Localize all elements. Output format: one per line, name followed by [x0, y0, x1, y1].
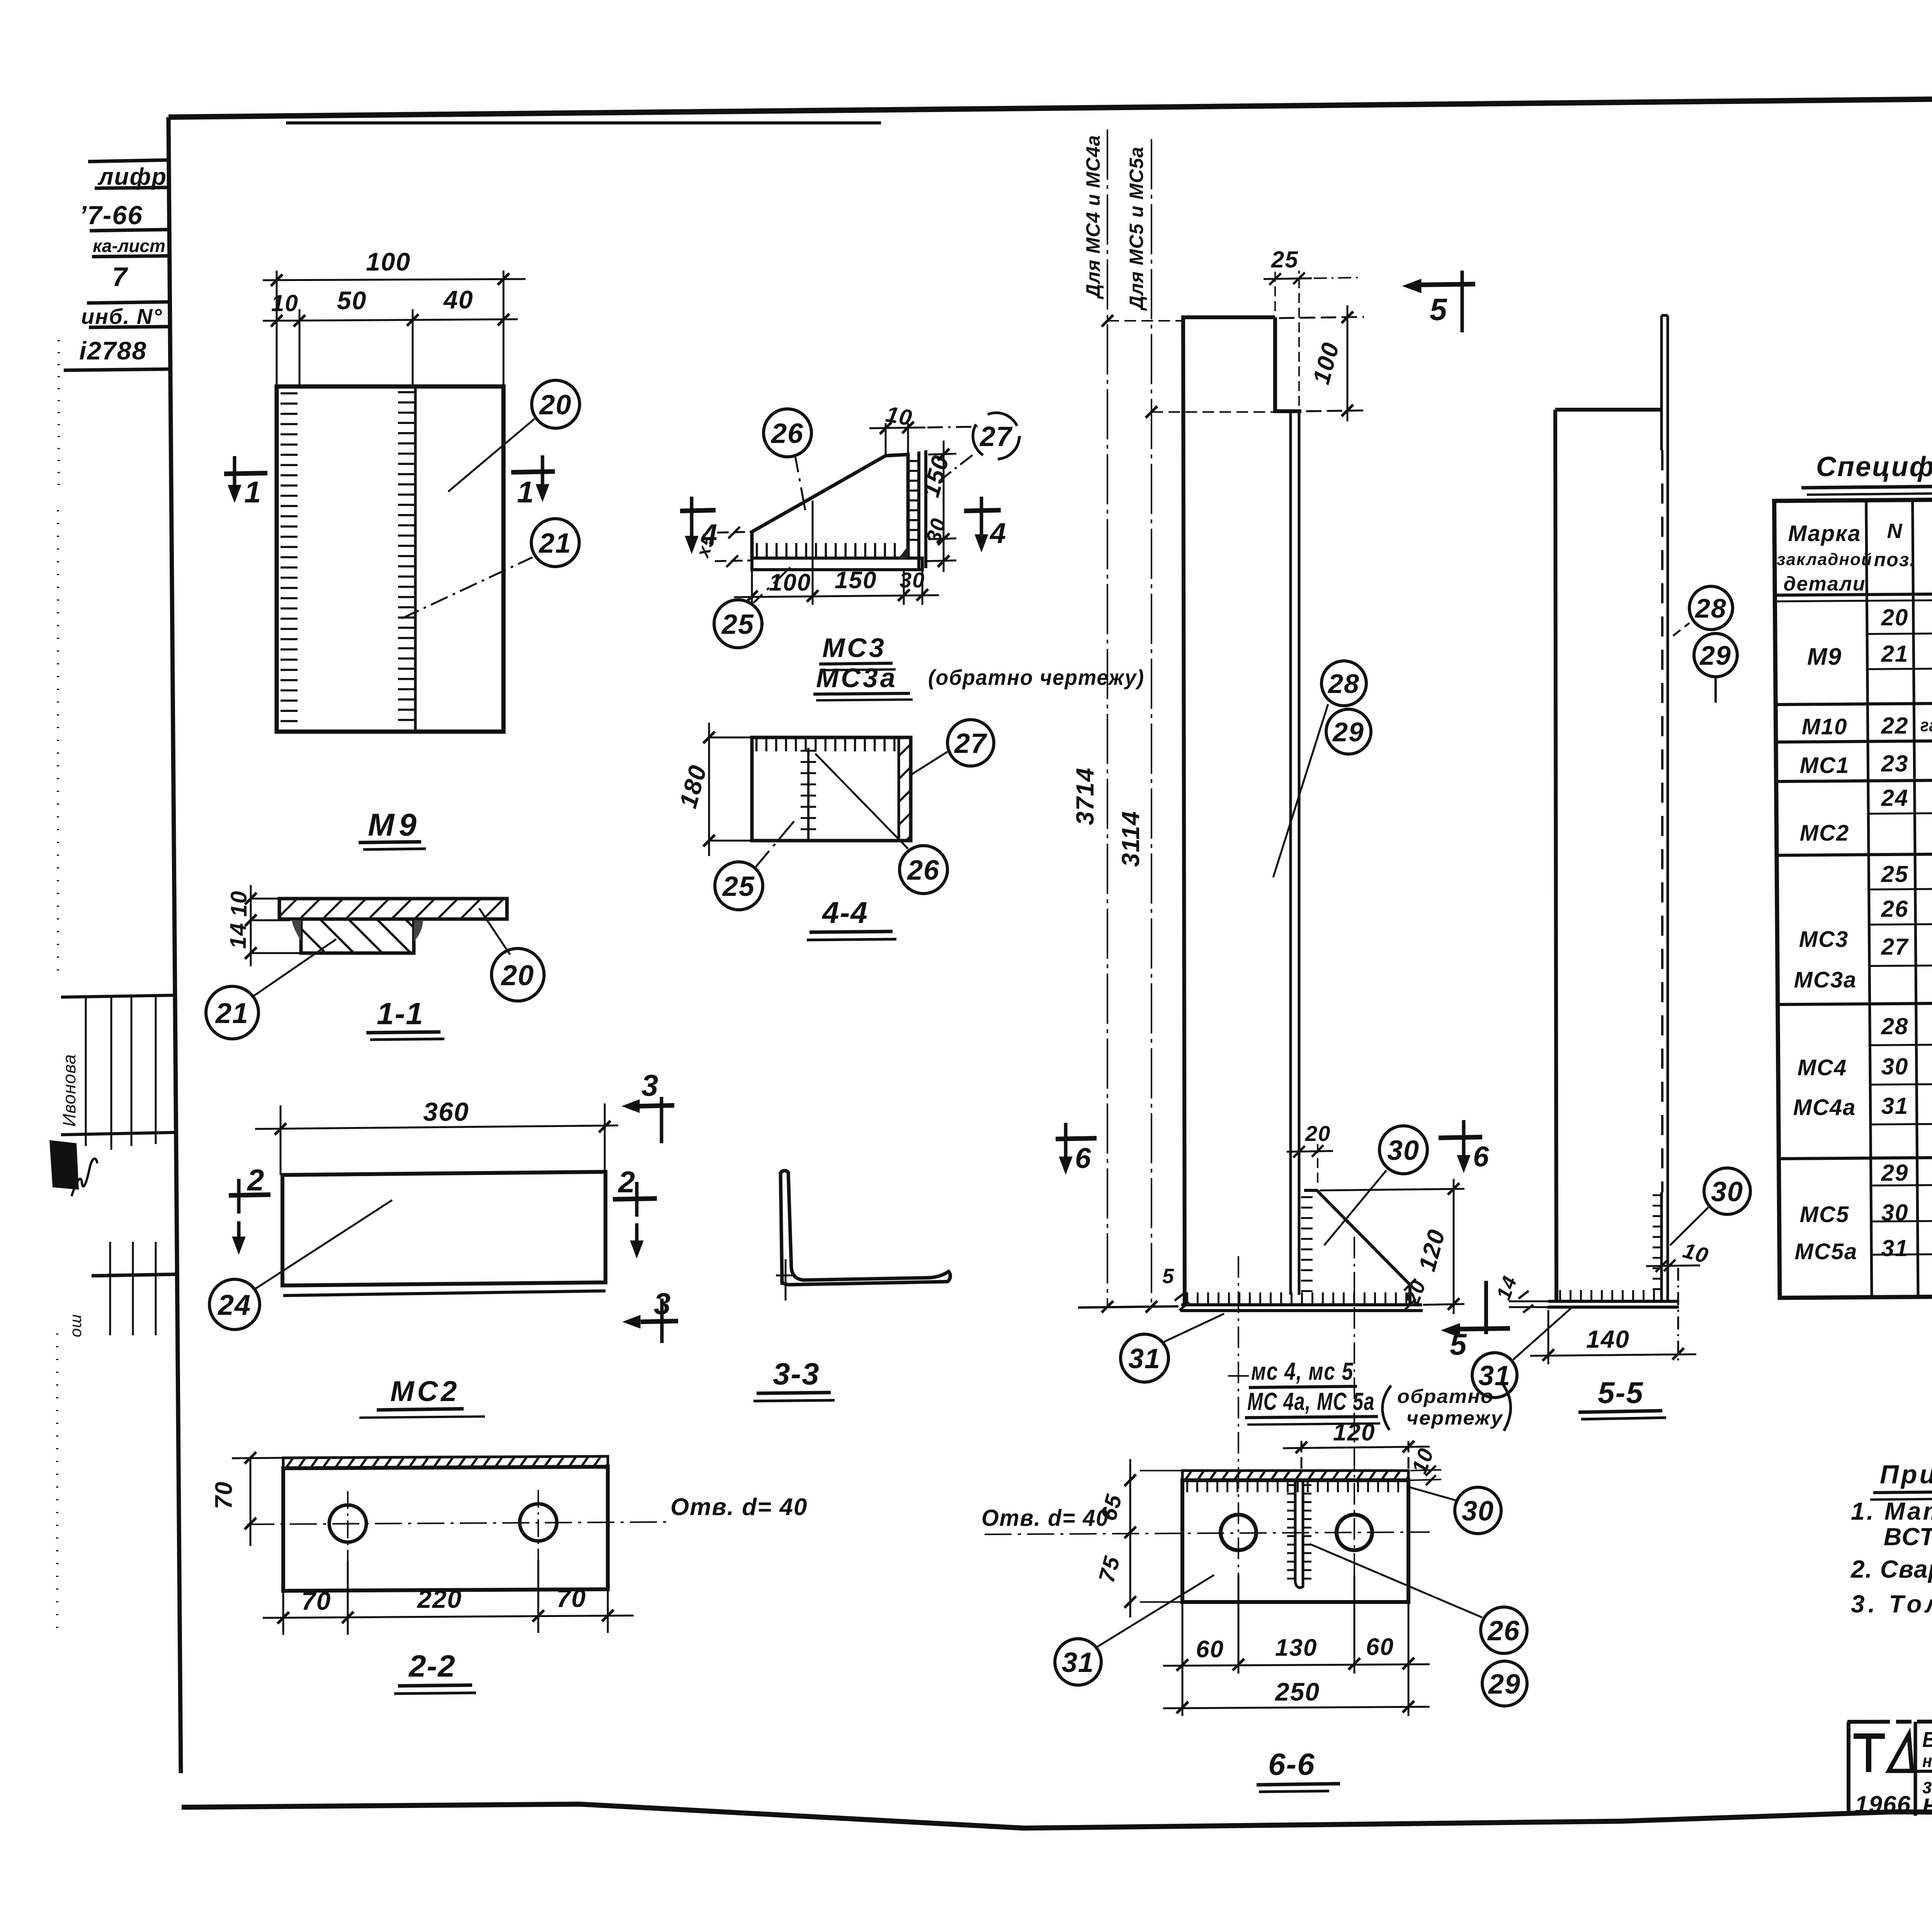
right column base weld comb — [1559, 1290, 1658, 1301]
section mark 2 left of MC2 — [229, 1179, 270, 1254]
svg-text:150: 150 — [835, 567, 877, 594]
dim 100 top right — [1279, 305, 1364, 421]
svg-text:1-1: 1-1 — [377, 996, 424, 1031]
svg-text:130: 130 — [1275, 1634, 1317, 1661]
table section column — [1920, 605, 1932, 1261]
svg-text:140: 140 — [1586, 1325, 1630, 1353]
svg-text:3. Толщина сварных швов hш: 3. Толщина сварных швов hш = 8 мм. — [1851, 1590, 1932, 1618]
MC3 angle 27 vertical — [919, 450, 926, 568]
svg-text:29: 29 — [1699, 640, 1731, 671]
callout 24 on MC2 — [209, 1200, 392, 1330]
svg-text:23: 23 — [1881, 751, 1909, 776]
svg-text:28: 28 — [1694, 593, 1727, 623]
label MC3 MC3a — [822, 633, 886, 663]
section mark 4 right — [964, 497, 1001, 552]
svg-text:5: 5 — [1162, 1265, 1175, 1288]
svg-text:4-4: 4-4 — [821, 896, 868, 930]
svg-text:3: 3 — [654, 1287, 671, 1321]
6-6 top plate band — [1182, 1471, 1408, 1480]
svg-text:Марка: Марка — [1788, 521, 1861, 546]
title row 1 — [1922, 1727, 1932, 1752]
MC3 bottom dims 100 150 30 — [734, 570, 939, 605]
table header texts — [1777, 514, 1932, 599]
note 1 — [1851, 1497, 1932, 1525]
callout 25 on 4-4 — [715, 821, 794, 910]
svg-text:N: N — [1887, 519, 1903, 543]
callout 31 on 6-6 — [1055, 1575, 1214, 1685]
svg-text:30: 30 — [1881, 1200, 1909, 1226]
stamp text shifr — [97, 163, 167, 190]
spec table title — [1816, 451, 1932, 482]
callout 29 on 6-6 — [1482, 1661, 1527, 1706]
table mark column — [1793, 644, 1858, 1264]
3-3 centerline tick — [776, 1259, 796, 1301]
left column thin leg — [1291, 411, 1299, 1295]
svg-text:3: 3 — [641, 1068, 659, 1102]
callout 31 left base — [1121, 1314, 1224, 1382]
callout 28 right pair — [1673, 586, 1733, 636]
svg-text:Ивонова: Ивонова — [59, 1054, 79, 1127]
2-2 hole right — [520, 1504, 557, 1541]
svg-text:3114: 3114 — [1117, 810, 1145, 867]
svg-text:МС4: МС4 — [1798, 1055, 1847, 1080]
section 2-2 plate — [283, 1456, 608, 1591]
2-2 hole left — [329, 1505, 366, 1542]
svg-text:чертежу: чертежу — [1406, 1407, 1503, 1429]
dim 14 left of base — [1509, 1291, 1548, 1313]
svg-text:2: 2 — [247, 1163, 265, 1197]
svg-text:ош: ош — [66, 1314, 85, 1337]
dim 140 — [1530, 1310, 1696, 1364]
svg-text:МС1: МС1 — [1800, 753, 1849, 778]
dim line 3714 — [1102, 129, 1183, 1313]
section mark 6 left — [1056, 1123, 1097, 1174]
label 6-6 — [1268, 1747, 1315, 1781]
svg-text:МС3а: МС3а — [1794, 967, 1857, 993]
6-6 plate outline — [1182, 1480, 1408, 1602]
dim 5 left of base — [1175, 1293, 1189, 1310]
svg-text:60: 60 — [1366, 1634, 1394, 1660]
svg-text:120: 120 — [1333, 1419, 1375, 1446]
svg-text:ные размером 3,6×3,0 и 3,6×3,6: ные размером 3,6×3,0 и 3,6×3,6м. Ш.б. ко… — [1922, 1751, 1932, 1771]
MC3 left small ticks — [715, 527, 752, 567]
svg-text:27: 27 — [979, 421, 1013, 452]
label 5-5 — [1598, 1376, 1644, 1410]
svg-text:70: 70 — [301, 1587, 331, 1615]
2-2 bottom dims 70 220 70 — [263, 1560, 634, 1635]
6-6 dim 120 top — [1283, 1438, 1430, 1469]
right column thin leg — [1662, 315, 1668, 1301]
left margin dotted line upper — [58, 340, 60, 495]
M9 dim 100 — [263, 271, 526, 386]
svg-text:31: 31 — [1128, 1343, 1161, 1374]
hole centerline right — [1354, 1237, 1355, 1575]
left margin dotted line lower — [56, 1333, 58, 1639]
svg-text:30: 30 — [1462, 1496, 1494, 1527]
section mark 2 right of MC2 — [613, 1182, 657, 1258]
callout 26 on 6-6 — [1310, 1544, 1527, 1653]
svg-text:Ворота промышленных зданий .: Ворота промышленных зданий . Раздбижные … — [1922, 1727, 1932, 1752]
MC2 plate outline — [282, 1172, 605, 1296]
6-6 dims 65 75 left — [1124, 1459, 1182, 1617]
right column weld comb bottom — [1653, 1194, 1663, 1295]
svg-text:МС2: МС2 — [1800, 821, 1849, 846]
MC3 bottom plate 25 — [752, 558, 922, 570]
svg-text:поз.: поз. — [1874, 549, 1916, 570]
callout 28 left pair — [1273, 661, 1366, 877]
callout 21 on 1-1 — [206, 939, 336, 1039]
title row 3 — [1922, 1774, 1932, 1798]
svg-text:Для МС5 и МС5а: Для МС5 и МС5а — [1126, 146, 1147, 311]
stamp text 2788 — [79, 336, 147, 365]
callout 25 on MC3 — [714, 567, 790, 648]
MC3 corner fillet — [899, 546, 908, 558]
section mark 4 left — [680, 497, 716, 553]
section 1-1 plate 20 hatched — [279, 899, 507, 919]
svg-text:24: 24 — [217, 1289, 251, 1321]
callout 26 on MC3 — [764, 409, 811, 510]
svg-text:27: 27 — [1881, 934, 1909, 960]
callout 30 on 6-6 — [1410, 1487, 1501, 1534]
6-6 top weld comb — [1186, 1481, 1406, 1492]
svg-text:360: 360 — [423, 1097, 469, 1127]
right column MC5 outline — [1555, 410, 1662, 1301]
svg-text:(обратно чертежу): (обратно чертежу) — [928, 665, 1145, 690]
svg-text:1. Материал конструкций – ста: 1. Материал конструкций – сталь марки — [1851, 1497, 1932, 1525]
svg-text:220: 220 — [417, 1585, 462, 1613]
svg-text:детали: детали — [1784, 573, 1866, 595]
svg-text:МС3: МС3 — [822, 633, 886, 663]
svg-text:20: 20 — [1881, 604, 1909, 630]
svg-text:20: 20 — [500, 959, 534, 991]
svg-text:25: 25 — [1881, 861, 1909, 887]
svg-text:закладной: закладной — [1777, 550, 1872, 569]
4-4 middle weld seam — [807, 748, 810, 841]
svg-text:29: 29 — [1881, 1160, 1909, 1186]
svg-text:МС2: МС2 — [390, 1375, 460, 1407]
svg-text:3714: 3714 — [1071, 767, 1099, 825]
callout 30 right column — [1670, 1168, 1750, 1245]
svg-text:і2788: і2788 — [79, 336, 147, 365]
svg-text:М9: М9 — [1807, 644, 1842, 670]
6-6 horizontal centerline — [985, 1532, 1430, 1534]
svg-text:26: 26 — [1487, 1616, 1520, 1646]
svg-text:31: 31 — [1881, 1093, 1909, 1119]
svg-text:100: 100 — [366, 247, 411, 276]
svg-text:МС3а: МС3а — [816, 663, 898, 693]
2-2 dim 70 left — [232, 1452, 283, 1546]
4-4 dim 180 — [703, 723, 752, 856]
6-6 center weld seam — [1295, 1480, 1303, 1588]
svg-text:70: 70 — [211, 1481, 237, 1509]
left margin signature grid B — [92, 1242, 177, 1335]
label M9 — [368, 807, 421, 843]
MC3 weld right comb — [907, 460, 918, 541]
svg-text:26: 26 — [906, 855, 940, 886]
callout 27 on 4-4 — [911, 720, 994, 775]
stamp text inv no — [81, 304, 163, 329]
svg-text:3-3: 3-3 — [773, 1357, 820, 1391]
TD logo — [1854, 1735, 1912, 1772]
spec table grid — [1774, 495, 1932, 1298]
svg-text:Примечания :: Примечания : — [1880, 1460, 1932, 1489]
section mark 3 upper right — [622, 1097, 674, 1143]
dim 10 right leg — [1646, 1260, 1700, 1364]
gusset dim 120 right — [1320, 1179, 1464, 1314]
callout 26 on 4-4 — [815, 754, 947, 894]
svg-text:ка-лист: ка-лист — [93, 236, 165, 256]
label mc4 mc5 — [1251, 1357, 1354, 1385]
6-6 bottom dims 60 130 60 — [1163, 1575, 1430, 1716]
label 1-1 — [377, 996, 424, 1031]
svg-text:26: 26 — [770, 418, 804, 449]
section mark 1 left — [224, 456, 267, 502]
svg-text:25: 25 — [722, 871, 755, 902]
section 1-1 block 21 hatched — [292, 919, 423, 953]
ink blob — [49, 1140, 79, 1190]
svg-text:6: 6 — [1075, 1142, 1092, 1174]
label MC2 — [390, 1375, 460, 1407]
label 3-3 — [773, 1357, 820, 1391]
svg-text:30: 30 — [1711, 1176, 1743, 1207]
section mark 6 right — [1439, 1120, 1482, 1173]
callout 27 on MC3 — [939, 413, 1019, 481]
dim line 3114 — [1146, 139, 1291, 1313]
label 2-2 — [408, 1649, 456, 1683]
2-2 center lines — [247, 1490, 668, 1561]
svg-text:30: 30 — [1387, 1135, 1420, 1166]
svg-text:5: 5 — [1450, 1327, 1467, 1361]
left column MC4 outline — [1183, 317, 1301, 1304]
note 3 — [1851, 1590, 1932, 1618]
year 1966 — [1855, 1791, 1911, 1818]
signature name rotated — [59, 1054, 79, 1127]
6-6 dim 10 right — [1410, 1466, 1441, 1485]
gusset dim 20 top — [1287, 1144, 1333, 1183]
gusset plate 30 — [1304, 1190, 1410, 1305]
svg-text:4: 4 — [989, 517, 1007, 549]
svg-text:Отв. d= 40: Отв. d= 40 — [981, 1505, 1109, 1531]
svg-text:31: 31 — [1881, 1235, 1909, 1261]
svg-text:70: 70 — [556, 1584, 586, 1612]
rotated note dlya MC4 — [1082, 135, 1104, 300]
left column base plate — [1180, 1305, 1423, 1311]
svg-text:21: 21 — [1881, 641, 1909, 667]
svg-text:МС 4а, МС 5а: МС 4а, МС 5а — [1247, 1388, 1375, 1415]
svg-text:28: 28 — [1881, 1013, 1909, 1039]
svg-text:10: 10 — [884, 402, 915, 431]
section mark 1 right — [511, 455, 555, 502]
left margin signature grid A — [61, 995, 176, 1150]
6-6 hole right — [1337, 1515, 1372, 1550]
svg-text:20: 20 — [1305, 1121, 1331, 1146]
svg-text:27: 27 — [954, 728, 987, 759]
svg-text:29: 29 — [1488, 1669, 1521, 1700]
svg-text:21: 21 — [538, 528, 571, 559]
svg-text:5: 5 — [1430, 292, 1448, 327]
M9 dim 10 50 40 — [263, 309, 518, 386]
stamp text ka-list — [93, 236, 165, 256]
svg-text:МС5: МС5 — [1800, 1202, 1849, 1227]
svg-text:60: 60 — [1196, 1636, 1224, 1663]
svg-text:24: 24 — [1881, 785, 1909, 811]
title block frame — [1847, 1720, 1932, 1816]
svg-text:Отв. d= 40: Отв. d= 40 — [670, 1494, 808, 1520]
svg-text:250: 250 — [1274, 1677, 1320, 1706]
label obratno chertezhu — [1397, 1386, 1503, 1429]
svg-text:6: 6 — [1473, 1141, 1490, 1173]
4-4 plate outline — [752, 737, 911, 841]
callout 30 gusset — [1324, 1126, 1427, 1245]
4-4 top weld comb — [755, 737, 897, 751]
right column base plate — [1548, 1301, 1679, 1307]
MC3 weld bottom comb — [756, 543, 896, 558]
MC3 inner vertical line — [812, 501, 814, 568]
svg-text:лифр: лифр — [97, 163, 167, 190]
svg-text:29: 29 — [1332, 717, 1364, 747]
callout 20 on 1-1 — [479, 908, 544, 1001]
svg-text:мс 4, мс 5: мс 4, мс 5 — [1251, 1357, 1354, 1385]
svg-text:ВСТ. 3КП.: ВСТ. 3КП. — [1884, 1523, 1932, 1551]
4-4 right hatched angle — [899, 737, 911, 841]
MC3 gusset plate 26 — [752, 455, 908, 558]
MC3 dim 10 top — [869, 422, 978, 456]
svg-text:50: 50 — [337, 286, 367, 315]
callout 20 on M9 — [448, 380, 580, 492]
MC2 dim 360 — [255, 1103, 618, 1175]
left column base weld comb — [1186, 1292, 1412, 1305]
title row 4 — [1922, 1794, 1932, 1818]
svg-text:26: 26 — [1881, 896, 1909, 922]
MC3 dim 150 30 right — [925, 441, 956, 572]
rotated note dlya MC5 — [1126, 146, 1147, 311]
title row 2 — [1922, 1750, 1932, 1771]
note 1 line 2 — [1884, 1523, 1932, 1551]
section mark 3 lower right — [623, 1299, 678, 1343]
1-1 dims 10 14 — [245, 885, 301, 966]
svg-text:7: 7 — [112, 262, 128, 292]
svg-text:5-5: 5-5 — [1598, 1376, 1644, 1410]
svg-text:2. Сварку производить электр: 2. Сварку производить электродами типа Э… — [1850, 1555, 1932, 1583]
svg-text:21: 21 — [215, 997, 249, 1029]
svg-text:10: 10 — [271, 290, 299, 316]
svg-text:20: 20 — [539, 390, 572, 421]
svg-text:МС3: МС3 — [1799, 927, 1849, 952]
svg-text:28: 28 — [1327, 669, 1360, 699]
svg-text:МС5а: МС5а — [1795, 1239, 1858, 1264]
svg-text:40: 40 — [443, 285, 473, 314]
M9 weld seam middle — [398, 391, 414, 728]
callout 21 on M9 — [402, 519, 579, 618]
note 2 — [1850, 1555, 1932, 1583]
gusset dim 20 bottom — [1404, 1279, 1416, 1311]
callout 29 right pair — [1694, 633, 1737, 703]
notes title — [1880, 1460, 1932, 1489]
signature squiggle — [71, 1159, 97, 1196]
left margin dotted line mid — [57, 510, 59, 982]
svg-text:25: 25 — [721, 609, 754, 640]
callout 31 right column — [1472, 1307, 1572, 1398]
M9 plate outline — [277, 386, 503, 732]
stamp text 7-66 — [79, 201, 143, 230]
svg-text:14: 14 — [226, 922, 251, 949]
section mark 5 top — [1403, 271, 1475, 332]
svg-text:1966: 1966 — [1855, 1791, 1911, 1818]
svg-text:22: 22 — [1881, 713, 1909, 739]
6-6 dim 250 — [1163, 1701, 1430, 1713]
svg-text:10: 10 — [226, 890, 252, 917]
svg-text:6-6: 6-6 — [1268, 1747, 1315, 1781]
dim terminator line at base — [1078, 1306, 1179, 1308]
2-2 text otv d40 — [670, 1494, 808, 1520]
small rotated note — [66, 1314, 85, 1337]
table pos column — [1881, 604, 1909, 1261]
svg-text:НС1÷НС5, НС3а -НС5а. Специфика: НС1÷НС5, НС3а -НС5а. Спецификация стали — [1922, 1794, 1932, 1818]
svg-text:30: 30 — [900, 568, 925, 592]
svg-text:2: 2 — [617, 1165, 636, 1199]
dim 25 top — [1264, 271, 1360, 406]
stamp text 7 — [112, 262, 128, 292]
svg-text:инб. N°: инб. N° — [81, 304, 163, 329]
svg-text:25: 25 — [1271, 247, 1299, 272]
svg-text:2-2: 2-2 — [408, 1649, 456, 1683]
svg-text:30: 30 — [1881, 1054, 1909, 1079]
M9 weld seam left — [281, 392, 298, 727]
left stamp column rows — [64, 160, 172, 370]
section mark 5 bottom — [1441, 1281, 1510, 1337]
svg-text:М9: М9 — [368, 807, 421, 843]
hole centerline left — [1228, 1256, 1249, 1575]
svg-text:1: 1 — [244, 475, 262, 509]
svg-text:МС4а: МС4а — [1793, 1095, 1856, 1120]
svg-text:М10: М10 — [1802, 714, 1848, 739]
svg-text:31: 31 — [1062, 1647, 1094, 1678]
svg-text:газовая труба ф1½”: газовая труба ф1½” — [1920, 715, 1932, 735]
text otv d40 at 6-6 — [981, 1505, 1109, 1531]
callout 29 left pair — [1326, 709, 1371, 754]
6-6 hole left — [1221, 1515, 1256, 1550]
label 4-4 — [821, 896, 868, 930]
section 3-3 angle profile — [781, 1171, 950, 1285]
gusset weld comb vertical — [1301, 1196, 1313, 1293]
svg-text:’7-66: ’7-66 — [79, 201, 143, 230]
svg-text:1: 1 — [517, 475, 534, 509]
svg-text:Спецификация стали на одну зак: Спецификация стали на одну закладную дет… — [1816, 451, 1932, 482]
svg-text:Для МС4 и МС4а: Для МС4 и МС4а — [1082, 135, 1104, 300]
svg-text:31: 31 — [1478, 1360, 1511, 1391]
